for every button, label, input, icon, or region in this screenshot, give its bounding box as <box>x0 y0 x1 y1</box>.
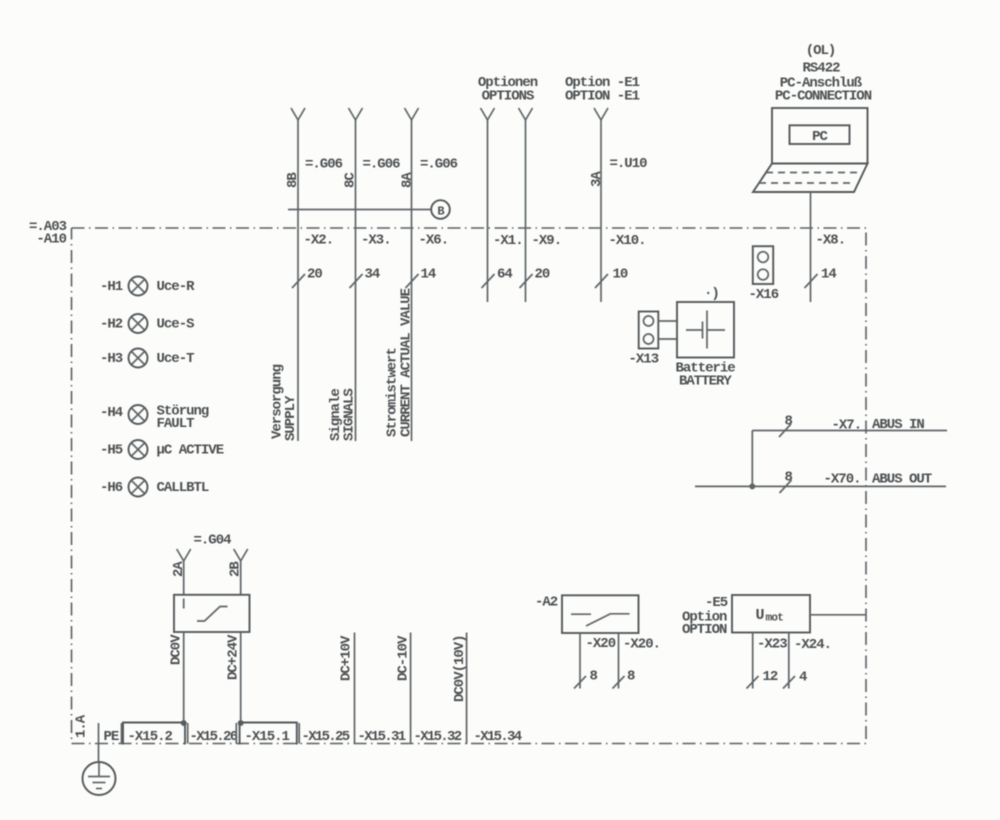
svg-text:-X2.: -X2. <box>304 233 334 249</box>
wire to node B <box>288 209 431 211</box>
wire DC0V <box>183 632 185 723</box>
battery G1 <box>677 302 734 358</box>
svg-text:DC+10V: DC+10V <box>339 635 355 681</box>
label Versorgung SUPPLY <box>270 364 300 441</box>
terminal PE separator bars <box>99 723 122 744</box>
svg-text:RS422: RS422 <box>802 61 840 77</box>
svg-text:8B: 8B <box>285 172 301 188</box>
connector -X16 <box>753 246 773 284</box>
terminal box -X15.2 <box>123 723 185 746</box>
label -E5 Option OPTION <box>682 595 728 638</box>
svg-text:-X15.2: -X15.2 <box>128 729 173 745</box>
svg-text:8: 8 <box>785 414 793 430</box>
node B <box>431 200 450 219</box>
pin tick 34 on -X3 <box>350 267 380 289</box>
wire X13 to battery pin1 <box>658 320 677 322</box>
svg-text:-A10: -A10 <box>36 232 66 248</box>
svg-text:B: B <box>437 205 444 219</box>
svg-text:-X13: -X13 <box>629 352 659 368</box>
wire X13 to battery pin2 <box>658 338 677 340</box>
svg-text:-X8.: -X8. <box>816 233 846 249</box>
svg-text:-X10.: -X10. <box>609 233 646 249</box>
svg-text:PC-CONNECTION: PC-CONNECTION <box>775 89 872 105</box>
svg-text:PE: PE <box>104 729 119 745</box>
svg-text:-X15.26: -X15.26 <box>190 729 238 745</box>
svg-text:=.G06: =.G06 <box>363 157 401 173</box>
wire 2B <box>234 549 248 595</box>
svg-text:ABUS IN: ABUS IN <box>872 417 924 433</box>
wire 2A <box>177 549 191 595</box>
wire -X2 (8B) <box>291 108 305 441</box>
svg-text:2A: 2A <box>171 561 187 577</box>
svg-text:-A2: -A2 <box>535 595 558 611</box>
lamp H6 <box>100 478 209 497</box>
wire E5 to border <box>810 614 866 616</box>
wire -X8 <box>810 192 812 302</box>
svg-text:mot: mot <box>766 613 784 625</box>
svg-text:PC: PC <box>812 129 828 145</box>
ground symbol <box>83 762 116 795</box>
svg-text:1.A: 1.A <box>74 714 90 738</box>
pin tick 10 on -X10 <box>595 267 628 289</box>
svg-text:DC0V: DC0V <box>169 634 185 665</box>
svg-text:14: 14 <box>421 267 436 283</box>
svg-text:-X23: -X23 <box>757 637 787 653</box>
svg-text:-X15.31: -X15.31 <box>358 729 406 745</box>
svg-text:-X15.32: -X15.32 <box>414 729 462 745</box>
svg-text:-X3.: -X3. <box>361 233 391 249</box>
svg-text:=.U10: =.U10 <box>610 156 648 172</box>
svg-text:-H1: -H1 <box>100 279 123 295</box>
svg-text:DC+24V: DC+24V <box>226 634 242 680</box>
pin tick 64 on -X1 <box>482 267 513 289</box>
svg-text:3A: 3A <box>589 171 605 187</box>
wire DC0V(10V) <box>466 633 468 745</box>
lamp H3 <box>100 349 194 368</box>
svg-text:-X16: -X16 <box>749 287 779 303</box>
label Stromistwert CURRENT ACTUAL VALUE <box>385 288 415 437</box>
svg-text:-X6.: -X6. <box>419 233 449 249</box>
svg-text:-X20: -X20 <box>586 636 616 652</box>
wire PE to ground <box>98 744 100 763</box>
wire -X20. right <box>618 633 620 689</box>
lamp H5 <box>100 440 224 459</box>
svg-text:-H2: -H2 <box>100 317 123 333</box>
svg-text:-X9.: -X9. <box>532 233 562 249</box>
pin tick 8 on -X20. <box>613 669 636 689</box>
svg-text:=.G04: =.G04 <box>194 533 232 549</box>
svg-text:-X20.: -X20. <box>623 637 660 653</box>
svg-text:DC-10V: DC-10V <box>396 635 412 681</box>
svg-text:-H5: -H5 <box>100 443 123 459</box>
wire -X10 <box>594 108 608 302</box>
power supply G04 box <box>174 595 250 632</box>
pin tick 4 on -X24. <box>783 670 807 689</box>
lamp H4 <box>100 404 209 433</box>
terminal -X15.26 <box>188 723 238 745</box>
svg-text:-X15.34: -X15.34 <box>474 729 522 745</box>
svg-text:2B: 2B <box>228 561 244 577</box>
svg-text:SUPPLY: SUPPLY <box>283 395 299 441</box>
Umot option module E5 <box>732 595 810 633</box>
wire -X3 (8C) <box>349 108 363 441</box>
svg-text:-H3: -H3 <box>100 351 123 367</box>
svg-text:Uce-R: Uce-R <box>157 279 196 295</box>
svg-text:8: 8 <box>785 470 793 486</box>
svg-text:-X15.25: -X15.25 <box>302 729 350 745</box>
svg-text:OPTIONS: OPTIONS <box>482 89 534 105</box>
enclosure dash-dot border =.A03 -A10 <box>72 228 867 744</box>
pin tick 8 on -X20 <box>574 669 598 689</box>
svg-text:-X7.: -X7. <box>832 418 862 434</box>
pin tick 14 on -X6 <box>406 267 436 289</box>
svg-text:-X70.: -X70. <box>824 472 861 488</box>
svg-text:34: 34 <box>365 267 380 283</box>
svg-text:µC ACTIVE: µC ACTIVE <box>157 443 224 459</box>
svg-text:-X15.1: -X15.1 <box>245 729 290 745</box>
wire -X24. <box>788 633 790 689</box>
svg-text:20: 20 <box>535 267 550 283</box>
pin tick 8 ABUS OUT <box>780 470 793 494</box>
lamp H1 <box>100 277 195 296</box>
svg-text:-X24.: -X24. <box>794 637 831 653</box>
svg-text:=.G06: =.G06 <box>305 157 343 173</box>
wire ABUS OUT <box>695 485 946 487</box>
svg-text:-H6: -H6 <box>100 480 123 496</box>
svg-text:4: 4 <box>799 670 807 686</box>
svg-text:SIGNALS: SIGNALS <box>342 389 358 441</box>
wire ABUS vertical link <box>751 431 753 487</box>
svg-text:-X1.: -X1. <box>493 233 523 249</box>
svg-text:CALLBTL: CALLBTL <box>157 480 209 496</box>
wire DC+24V <box>240 632 242 723</box>
pin tick 8 ABUS IN <box>779 414 793 438</box>
svg-text:OPTION -E1: OPTION -E1 <box>565 89 640 105</box>
svg-text:BATTERY: BATTERY <box>679 374 732 390</box>
svg-text:14: 14 <box>821 267 836 283</box>
svg-text:·): ·) <box>704 286 719 302</box>
svg-text:DC0V(10V): DC0V(10V) <box>452 635 468 702</box>
svg-text:Uce-T: Uce-T <box>157 351 195 367</box>
svg-text:8: 8 <box>590 669 598 685</box>
wire DC+10V <box>354 633 356 745</box>
svg-text:8: 8 <box>627 669 635 685</box>
pin tick 14 on -X8 <box>805 267 837 289</box>
label Signale SIGNALS <box>328 389 358 441</box>
lamp H2 <box>100 314 194 333</box>
svg-text:8A: 8A <box>400 172 416 188</box>
wire -X6 (8A) <box>405 108 419 441</box>
svg-text:ABUS OUT: ABUS OUT <box>872 472 932 488</box>
relay -A2 <box>535 595 639 634</box>
svg-text:12: 12 <box>763 669 778 685</box>
terminal box -X15.1 <box>240 723 297 746</box>
svg-text:8C: 8C <box>343 172 359 188</box>
connector -X13 <box>639 312 659 349</box>
PC laptop symbol <box>753 108 868 192</box>
svg-text:-H4: -H4 <box>100 405 123 421</box>
svg-text:OPTION: OPTION <box>682 622 727 638</box>
junction DC+24V at X15.1 <box>238 720 244 726</box>
wire -X20 left <box>579 633 581 689</box>
pin tick 20 on -X9 <box>520 267 550 289</box>
terminal -X15.25 <box>299 723 350 745</box>
junction DC0V at X15.2 <box>181 720 187 726</box>
svg-text:10: 10 <box>613 267 628 283</box>
label (OL) RS422 PC-Anschluß PC-CONNECTION <box>775 43 872 105</box>
wire -X9 <box>519 108 533 302</box>
svg-text:20: 20 <box>307 267 322 283</box>
wire DC-10V <box>410 633 412 745</box>
svg-text:Uce-S: Uce-S <box>157 317 195 333</box>
svg-text:(OL): (OL) <box>806 43 836 59</box>
terminal -X15.32 <box>414 729 462 745</box>
wire -X23 <box>752 633 754 689</box>
svg-text:U: U <box>756 607 765 624</box>
pin tick 12 on -X23 <box>747 669 778 689</box>
wire ABUS IN <box>752 430 947 432</box>
terminal -X15.31 <box>358 729 406 745</box>
junction ABUS <box>749 483 755 489</box>
svg-text:=.G06: =.G06 <box>420 157 458 173</box>
svg-text:64: 64 <box>497 267 512 283</box>
svg-text:FAULT: FAULT <box>157 416 195 432</box>
pin tick 20 on -X2 <box>292 267 322 289</box>
wire -X1 <box>481 108 495 302</box>
svg-text:CURRENT ACTUAL VALUE: CURRENT ACTUAL VALUE <box>399 288 415 437</box>
